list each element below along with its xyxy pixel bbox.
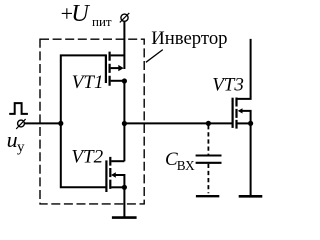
capacitor C_вх top plate (196, 155, 222, 157)
VT3 channel segments (235, 98, 237, 129)
svg-text:VT2: VT2 (71, 146, 103, 167)
VT3 source stub (238, 122, 251, 124)
input terminal circle with slash (16, 119, 25, 129)
wire: input gate loop (VT1 gate lead, left vertical, VT2 gate lead) (61, 55, 107, 187)
VT2 drain stub (top) (111, 160, 124, 162)
node: capacitor tap junction dot (206, 121, 211, 126)
svg-text:VT3: VT3 (212, 75, 244, 96)
svg-text:U: U (71, 0, 90, 27)
VT1 source stub (top) (111, 54, 125, 56)
VT3 body stub with arrow pointing left (242, 111, 251, 124)
svg-text:у: у (17, 139, 25, 155)
svg-text:VT1: VT1 (72, 72, 104, 93)
label C_вх (165, 149, 195, 173)
VT1 channel segments (108, 52, 110, 86)
svg-text:u: u (7, 127, 18, 152)
VT2 body stub with arrow pointing left (115, 175, 124, 187)
pulse waveform symbol (9, 103, 28, 114)
VT3 drain stub and drain wire up (238, 39, 251, 99)
ground bar under VT3 (239, 195, 263, 198)
capacitor C_вх dashed bottom lead (207, 164, 209, 194)
leader line to inverter box (146, 50, 163, 63)
VT3 gate bar (232, 98, 234, 128)
VT2 source stub (bottom) (111, 186, 124, 188)
VT2 gate bar (105, 160, 107, 192)
transistor VT2 (n-channel MOSFET) (106, 157, 124, 192)
capacitor C_вх bottom plate (196, 162, 222, 164)
wire: input to gate loop (24, 122, 60, 124)
wire: output vertical VT1 drain to VT2 drain (123, 81, 125, 161)
label u_y (control voltage) (7, 127, 25, 155)
transistor VT3 (n-channel MOSFET) (233, 39, 251, 129)
inverter dashed enclosure box (40, 39, 144, 204)
transistor VT1 (p-channel MOSFET) (106, 52, 125, 86)
wire: supply vertical from terminal to VT1 (123, 21, 125, 69)
VT2 channel segments (109, 157, 111, 189)
supply label + Uпит (61, 0, 112, 29)
node: input junction dot (58, 121, 63, 126)
svg-text:ВХ: ВХ (177, 158, 195, 173)
ground bar under capacitor (196, 195, 219, 197)
VT1 body stub with arrow pointing right (111, 67, 119, 69)
svg-text:Инвертор: Инвертор (151, 28, 227, 49)
wire: VT3 source to ground (250, 123, 252, 196)
VT1 drain stub (bottom) (111, 80, 125, 82)
wire: VT2 source to ground (123, 187, 125, 217)
node: VT2 source junction dot (122, 185, 127, 190)
node: output junction dot (122, 121, 127, 126)
capacitor C_вх dashed top lead (207, 125, 209, 154)
VT1 gate bar (105, 54, 107, 83)
wire: output to VT3 gate (124, 122, 231, 124)
svg-text:пит: пит (92, 14, 112, 29)
supply terminal circle with slash (120, 13, 130, 23)
ground bar under VT2 (112, 216, 137, 219)
node: VT1 drain junction dot (122, 78, 127, 83)
node: VT3 source junction dot (248, 121, 253, 126)
